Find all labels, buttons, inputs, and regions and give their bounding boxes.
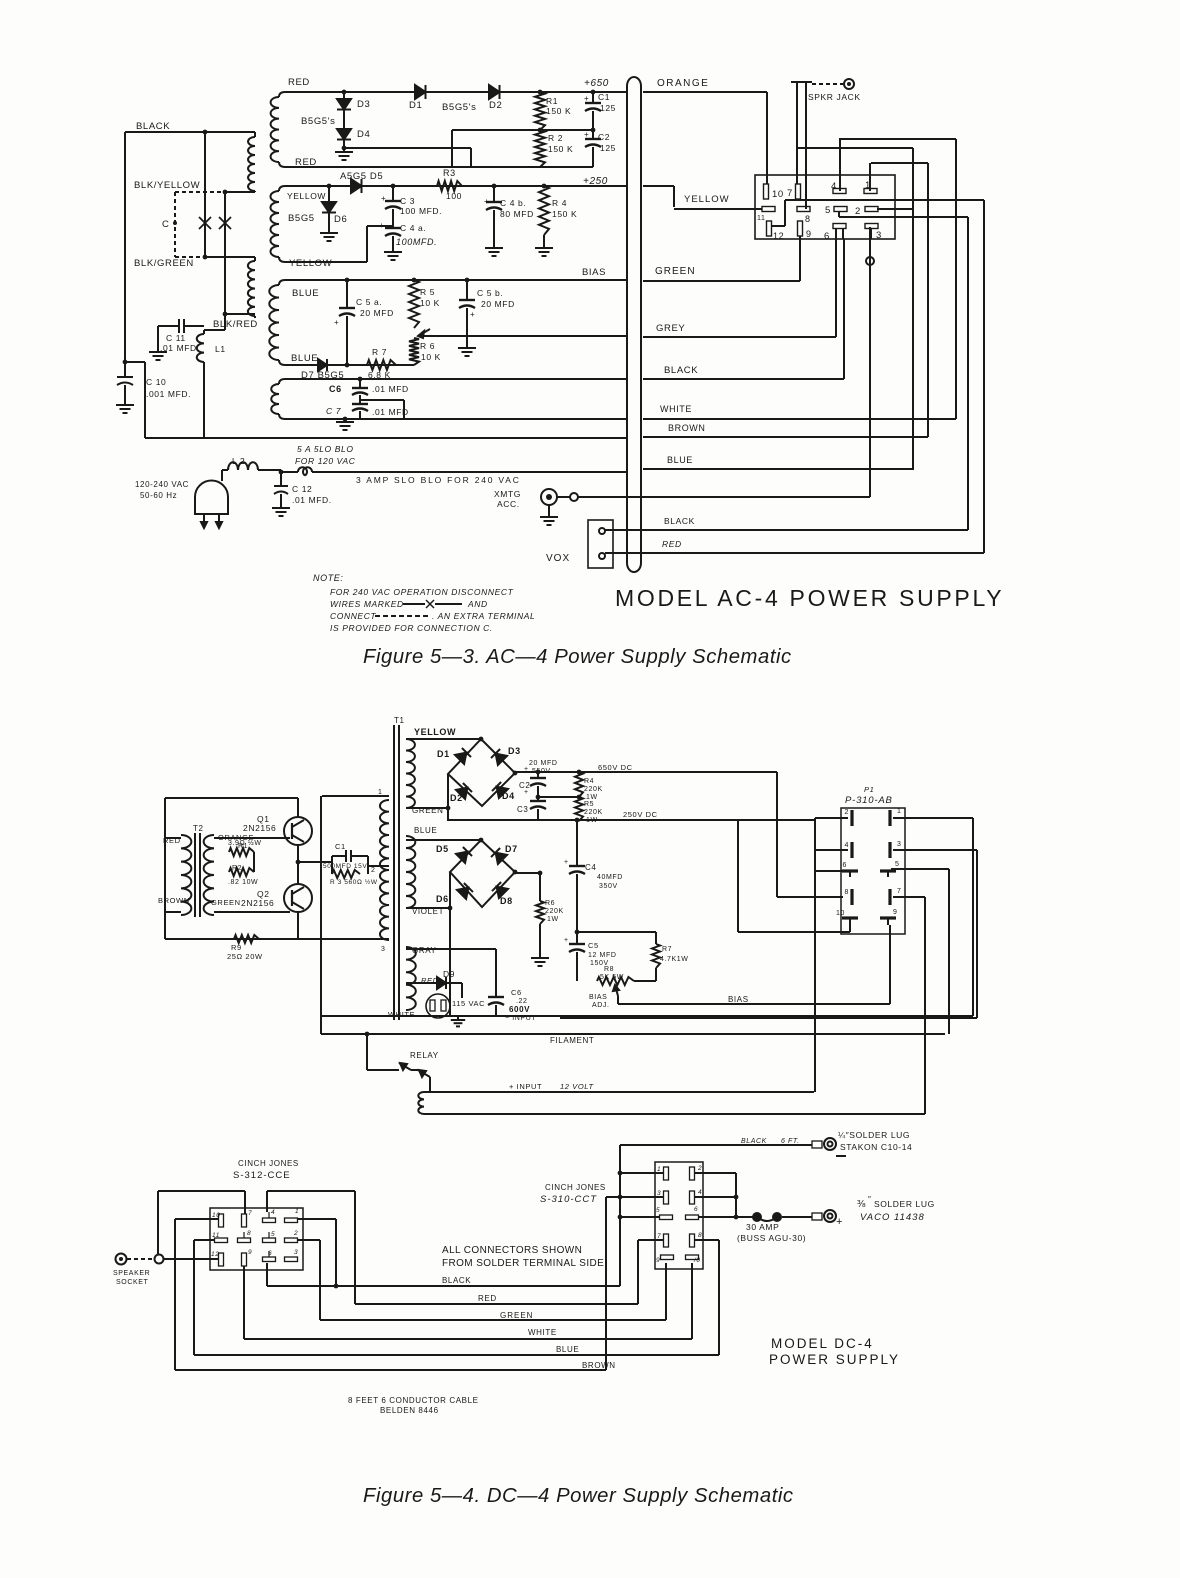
svg-text:BIAS: BIAS (582, 267, 606, 278)
svg-text:80 MFD: 80 MFD (500, 209, 534, 219)
svg-text:BLACK: BLACK (136, 121, 170, 132)
svg-text:C5: C5 (588, 941, 599, 950)
svg-text:50-60 Hz: 50-60 Hz (140, 491, 177, 500)
svg-text:2: 2 (293, 1230, 298, 1237)
svg-text:R5: R5 (584, 801, 594, 808)
svg-text:BLACK: BLACK (664, 516, 695, 526)
svg-text:.01 MFD.: .01 MFD. (160, 343, 200, 353)
svg-text:4: 4 (271, 1209, 275, 1216)
svg-text:Figure 5—3. AC—4 Power Supp: Figure 5—3. AC—4 Power Supply Schematic (363, 646, 792, 668)
svg-text:600V: 600V (509, 1005, 530, 1014)
svg-text:550V: 550V (532, 768, 551, 775)
svg-text:C1: C1 (335, 842, 346, 851)
svg-text:CINCH JONES: CINCH JONES (238, 1159, 299, 1168)
svg-text:8: 8 (845, 889, 850, 896)
svg-text:4: 4 (698, 1189, 702, 1196)
svg-text:STAKON C10-14: STAKON C10-14 (840, 1142, 912, 1152)
svg-text:B5G5's: B5G5's (442, 102, 476, 113)
svg-text:3.9Ω ½W: 3.9Ω ½W (228, 839, 262, 847)
svg-text:GREEN: GREEN (655, 266, 696, 277)
svg-text:BROWN: BROWN (668, 423, 706, 433)
svg-text:C 11: C 11 (166, 333, 186, 343)
svg-text:7: 7 (897, 888, 902, 895)
svg-text:9: 9 (656, 1257, 660, 1264)
svg-text:D9: D9 (443, 969, 455, 979)
svg-text:12: 12 (211, 1251, 219, 1258)
svg-text:D3: D3 (357, 99, 370, 110)
svg-text:WHITE: WHITE (388, 1010, 415, 1019)
svg-text:P-310-AB: P-310-AB (845, 795, 893, 806)
svg-text:R7: R7 (662, 946, 672, 953)
svg-text:10: 10 (212, 1212, 220, 1219)
svg-text:150 K: 150 K (548, 144, 573, 154)
svg-text:8: 8 (698, 1232, 702, 1239)
svg-text:BLUE: BLUE (667, 455, 693, 465)
svg-text:11: 11 (212, 1232, 220, 1239)
svg-text:6: 6 (824, 231, 830, 242)
svg-text:FOR 240 VAC OPERATION DISC: FOR 240 VAC OPERATION DISCONNECT (330, 587, 514, 597)
svg-text:3: 3 (381, 946, 386, 953)
svg-text:C 4 a.: C 4 a. (400, 223, 426, 233)
svg-text:12 MFD: 12 MFD (588, 952, 617, 959)
svg-text:5K 5W: 5K 5W (600, 974, 624, 981)
svg-text:/0: /0 (693, 1257, 701, 1264)
svg-text:5: 5 (895, 861, 900, 868)
svg-text:220K: 220K (584, 809, 603, 816)
svg-text:+ INPUT: + INPUT (509, 1082, 542, 1091)
svg-text:D3: D3 (508, 746, 521, 756)
svg-text:D1: D1 (437, 749, 450, 759)
svg-text:10 K: 10 K (420, 298, 440, 308)
svg-text:C 3: C 3 (400, 196, 415, 206)
svg-text:⅜: ⅜ (857, 1199, 866, 1210)
svg-text:″: ″ (868, 1195, 871, 1204)
svg-text:650V DC: 650V DC (598, 763, 633, 772)
svg-text:125: 125 (600, 143, 616, 153)
svg-text:BIAS: BIAS (589, 994, 607, 1001)
svg-text:BLACK: BLACK (442, 1276, 471, 1285)
svg-text:IS PROVIDED FOR CONNECTION: IS PROVIDED FOR CONNECTION C. (330, 623, 493, 633)
svg-text:20 MFD: 20 MFD (481, 299, 515, 309)
svg-text:1W: 1W (586, 794, 598, 801)
svg-text:S-310-CCT: S-310-CCT (540, 1194, 597, 1205)
svg-text:BLACK: BLACK (664, 365, 698, 376)
svg-text:2: 2 (697, 1165, 702, 1172)
svg-text:9: 9 (248, 1249, 252, 1256)
svg-text:SPEAKER: SPEAKER (113, 1270, 150, 1277)
svg-text:ORANGE: ORANGE (657, 78, 709, 89)
svg-text:WIRES MARKED: WIRES MARKED (330, 599, 404, 609)
svg-text:ADJ.: ADJ. (592, 1002, 610, 1009)
svg-text:R9: R9 (231, 943, 242, 952)
svg-text:GREY: GREY (656, 323, 685, 334)
svg-text:+: + (836, 1216, 843, 1228)
svg-text:S-312-CCE: S-312-CCE (233, 1170, 291, 1181)
svg-text:R 4: R 4 (552, 198, 567, 208)
svg-text:BLK/GREEN: BLK/GREEN (134, 258, 194, 269)
svg-text:SOLDER LUG: SOLDER LUG (874, 1199, 935, 1209)
svg-text:C 7: C 7 (326, 406, 341, 416)
svg-text:+: + (564, 859, 569, 866)
svg-text:D5: D5 (436, 844, 449, 854)
svg-text:6: 6 (268, 1250, 272, 1257)
svg-text:500MFD 15V: 500MFD 15V (323, 863, 367, 870)
svg-text:+650: +650 (584, 78, 609, 89)
svg-text:.001 MFD.: .001 MFD. (146, 389, 191, 399)
svg-text:D7: D7 (505, 844, 518, 854)
svg-text:D4: D4 (502, 791, 515, 801)
svg-text:YELLOW: YELLOW (684, 194, 730, 205)
svg-text:YELLOW: YELLOW (414, 727, 456, 737)
svg-text:150 K: 150 K (552, 209, 577, 219)
svg-text:5: 5 (271, 1231, 275, 1238)
svg-text:C 5 a.: C 5 a. (356, 297, 382, 307)
svg-text:1: 1 (657, 1166, 661, 1173)
svg-text:9: 9 (893, 909, 898, 916)
svg-text:R8: R8 (604, 966, 614, 973)
svg-text:8: 8 (247, 1230, 251, 1237)
svg-text:R 2: R 2 (548, 133, 563, 143)
svg-text:125: 125 (600, 103, 616, 113)
svg-text:+: + (524, 789, 529, 796)
svg-text:¼″SOLDER LUG: ¼″SOLDER LUG (838, 1130, 910, 1140)
svg-text:100MFD.: 100MFD. (396, 237, 437, 247)
svg-text:12 VOLT: 12 VOLT (560, 1082, 594, 1091)
svg-text:B5G5's: B5G5's (301, 116, 335, 127)
svg-text:B5G5: B5G5 (288, 213, 315, 224)
svg-text:R 5: R 5 (420, 287, 435, 297)
svg-text:GREEN: GREEN (211, 898, 241, 907)
svg-text:8 FEET 6 CONDUCTOR CABLE: 8 FEET 6 CONDUCTOR CABLE (348, 1396, 479, 1405)
svg-text:C2: C2 (519, 781, 530, 790)
svg-text:R2: R2 (232, 865, 242, 872)
svg-text:C 4 b.: C 4 b. (500, 198, 526, 208)
svg-text:7: 7 (787, 188, 793, 199)
svg-text:P1: P1 (864, 785, 874, 794)
svg-text:C3: C3 (517, 805, 528, 814)
svg-text:BROWN: BROWN (158, 896, 190, 905)
svg-text:+: + (584, 130, 589, 139)
svg-text:BIAS: BIAS (728, 995, 749, 1004)
svg-text:BLUE: BLUE (291, 353, 318, 364)
svg-text:3: 3 (657, 1190, 661, 1197)
svg-text:BLACK: BLACK (741, 1138, 767, 1145)
svg-text:150 K: 150 K (546, 106, 571, 116)
svg-text:2: 2 (855, 206, 861, 217)
svg-text:WHITE: WHITE (660, 404, 692, 414)
svg-text:5: 5 (825, 205, 831, 216)
svg-text:XMTG: XMTG (494, 489, 521, 499)
svg-text:.01 MFD.: .01 MFD. (292, 495, 332, 505)
svg-text:GRAY: GRAY (412, 946, 437, 955)
svg-text:20 MFD: 20 MFD (360, 308, 394, 318)
svg-text:L1: L1 (215, 344, 226, 354)
svg-text:BLUE: BLUE (414, 826, 437, 835)
svg-text:D4: D4 (357, 129, 370, 140)
svg-text:+: + (470, 310, 475, 319)
svg-text:(BUSS AGU-30): (BUSS AGU-30) (737, 1233, 806, 1243)
svg-text:. AN EXTRA TERMINAL: . AN EXTRA TERMINAL (432, 611, 535, 621)
svg-text:WHITE: WHITE (528, 1328, 557, 1337)
svg-text:1: 1 (295, 1208, 299, 1215)
svg-text:350V: 350V (599, 883, 618, 890)
svg-text:L 2: L 2 (232, 456, 245, 466)
svg-text:R 3 560Ω ½W: R 3 560Ω ½W (330, 878, 378, 886)
svg-text:10 K: 10 K (421, 352, 441, 362)
svg-text:RED: RED (662, 539, 682, 549)
svg-text:BLK/RED: BLK/RED (213, 319, 258, 330)
svg-text:+: + (334, 318, 339, 327)
svg-text:30 AMP: 30 AMP (746, 1222, 779, 1232)
svg-text:+: + (524, 766, 529, 773)
svg-text:R4: R4 (584, 778, 594, 785)
svg-text:7: 7 (248, 1210, 252, 1217)
svg-text:6: 6 (694, 1206, 698, 1213)
svg-text:11: 11 (757, 215, 765, 222)
svg-text:D6: D6 (334, 214, 347, 225)
svg-text:6 FT.: 6 FT. (781, 1138, 800, 1145)
svg-text:25Ω 20W: 25Ω 20W (227, 952, 263, 961)
svg-text:C6: C6 (329, 384, 342, 394)
svg-text:4: 4 (831, 181, 837, 192)
svg-text:D2: D2 (489, 100, 502, 111)
svg-text:AND: AND (467, 599, 488, 609)
svg-text:ACC.: ACC. (497, 499, 520, 509)
svg-text:FOR 120 VAC: FOR 120 VAC (295, 456, 356, 466)
svg-text:MODEL AC-4 POWER SUPPLY: MODEL AC-4 POWER SUPPLY (615, 585, 1004, 611)
svg-text:220K: 220K (584, 786, 603, 793)
svg-text:7: 7 (657, 1233, 661, 1240)
svg-text:GREEN: GREEN (500, 1311, 533, 1320)
svg-text:D1: D1 (409, 100, 422, 111)
svg-text:100 MFD.: 100 MFD. (400, 206, 442, 216)
svg-text:5 A 5LO BLO: 5 A 5LO BLO (297, 444, 354, 454)
svg-text:NOTE:: NOTE: (313, 573, 344, 583)
svg-text:100: 100 (446, 191, 462, 201)
svg-text:R6: R6 (545, 900, 555, 907)
svg-text:BROWN: BROWN (582, 1361, 616, 1370)
svg-text:3 AMP SLO BLO FOR 240 V: 3 AMP SLO BLO FOR 240 VAC (356, 475, 521, 485)
svg-text:2: 2 (845, 809, 850, 816)
svg-text:12: 12 (773, 231, 784, 241)
svg-text:RED: RED (295, 157, 317, 168)
svg-text:3: 3 (294, 1249, 298, 1256)
svg-text:R 6: R 6 (420, 341, 435, 351)
svg-text:4: 4 (845, 842, 850, 849)
svg-text:FILAMENT: FILAMENT (550, 1036, 594, 1045)
svg-text:CINCH JONES: CINCH JONES (545, 1183, 606, 1192)
svg-text:1: 1 (378, 789, 383, 796)
svg-text:C4: C4 (585, 863, 596, 872)
svg-text:40MFD: 40MFD (597, 874, 623, 881)
svg-text:RED: RED (478, 1294, 497, 1303)
svg-text:R3: R3 (443, 168, 456, 178)
svg-text:2N2156: 2N2156 (243, 823, 276, 833)
svg-text:8: 8 (805, 214, 811, 224)
svg-text:C 5 b.: C 5 b. (477, 288, 503, 298)
svg-text:3: 3 (876, 230, 882, 241)
svg-text:BLUE: BLUE (292, 288, 319, 299)
svg-text:6: 6 (843, 862, 848, 869)
svg-text:.01 MFD: .01 MFD (372, 384, 409, 394)
svg-text:+: + (381, 194, 386, 203)
svg-text:115 VAC: 115 VAC (452, 999, 485, 1008)
svg-text:D8: D8 (500, 896, 513, 906)
svg-text:C2: C2 (598, 132, 610, 142)
svg-text:BELDEN 8446: BELDEN 8446 (380, 1406, 439, 1415)
svg-text:3: 3 (897, 841, 902, 848)
svg-text:C: C (162, 219, 169, 230)
svg-text:POWER SUPPLY: POWER SUPPLY (769, 1352, 900, 1367)
svg-text:5: 5 (656, 1207, 660, 1214)
svg-text:220K: 220K (545, 908, 564, 915)
svg-text:D6: D6 (436, 894, 449, 904)
svg-text:+: + (564, 937, 569, 944)
svg-text:1: 1 (897, 808, 902, 815)
svg-text:BLK/YELLOW: BLK/YELLOW (134, 180, 200, 191)
svg-text:T2: T2 (193, 824, 204, 833)
svg-text:R1: R1 (546, 96, 558, 106)
svg-text:FROM SOLDER TERMINAL SIDE: FROM SOLDER TERMINAL SIDE (442, 1258, 604, 1269)
svg-text:VACO 11438: VACO 11438 (860, 1212, 925, 1223)
svg-text:9: 9 (806, 229, 812, 239)
svg-text:20 MFD: 20 MFD (529, 760, 558, 767)
svg-text:10: 10 (836, 910, 845, 917)
svg-text:4.7K1W: 4.7K1W (660, 956, 689, 963)
svg-text:Figure 5—4. DC—4 Power Supp: Figure 5—4. DC—4 Power Supply Schematic (363, 1485, 794, 1507)
svg-text:2N2156: 2N2156 (241, 898, 274, 908)
svg-text:.82 10W: .82 10W (228, 879, 258, 886)
svg-text:1W: 1W (547, 916, 559, 923)
svg-text:.22: .22 (516, 998, 528, 1005)
svg-text:CONNECT: CONNECT (330, 611, 376, 621)
svg-text:SPKR JACK: SPKR JACK (808, 92, 861, 102)
svg-text:T1: T1 (394, 716, 405, 725)
svg-text:MODEL DC-4: MODEL DC-4 (771, 1336, 874, 1351)
svg-text:BLUE: BLUE (556, 1345, 579, 1354)
svg-text:+: + (484, 197, 489, 206)
svg-text:C 12: C 12 (292, 484, 312, 494)
svg-text:10: 10 (772, 189, 784, 200)
svg-text:ALL CONNECTORS SHOWN: ALL CONNECTORS SHOWN (442, 1245, 582, 1256)
svg-text:VOX: VOX (546, 553, 570, 564)
svg-text:YELLOW: YELLOW (289, 258, 332, 269)
svg-text:RED: RED (288, 77, 310, 88)
svg-text:+250: +250 (583, 176, 608, 187)
svg-text:C6: C6 (511, 988, 522, 997)
svg-text:120-240 VAC: 120-240 VAC (135, 480, 189, 489)
svg-text:2: 2 (371, 867, 376, 874)
svg-text:YELLOW: YELLOW (287, 191, 326, 201)
svg-text:RELAY: RELAY (410, 1051, 439, 1060)
svg-text:D2: D2 (450, 793, 463, 803)
svg-text:R 7: R 7 (372, 347, 387, 357)
svg-text:C1: C1 (598, 92, 610, 102)
svg-text:C 10: C 10 (146, 377, 166, 387)
svg-text:250V DC: 250V DC (623, 810, 658, 819)
svg-text:+: + (584, 94, 589, 103)
svg-text:SOCKET: SOCKET (116, 1279, 149, 1286)
